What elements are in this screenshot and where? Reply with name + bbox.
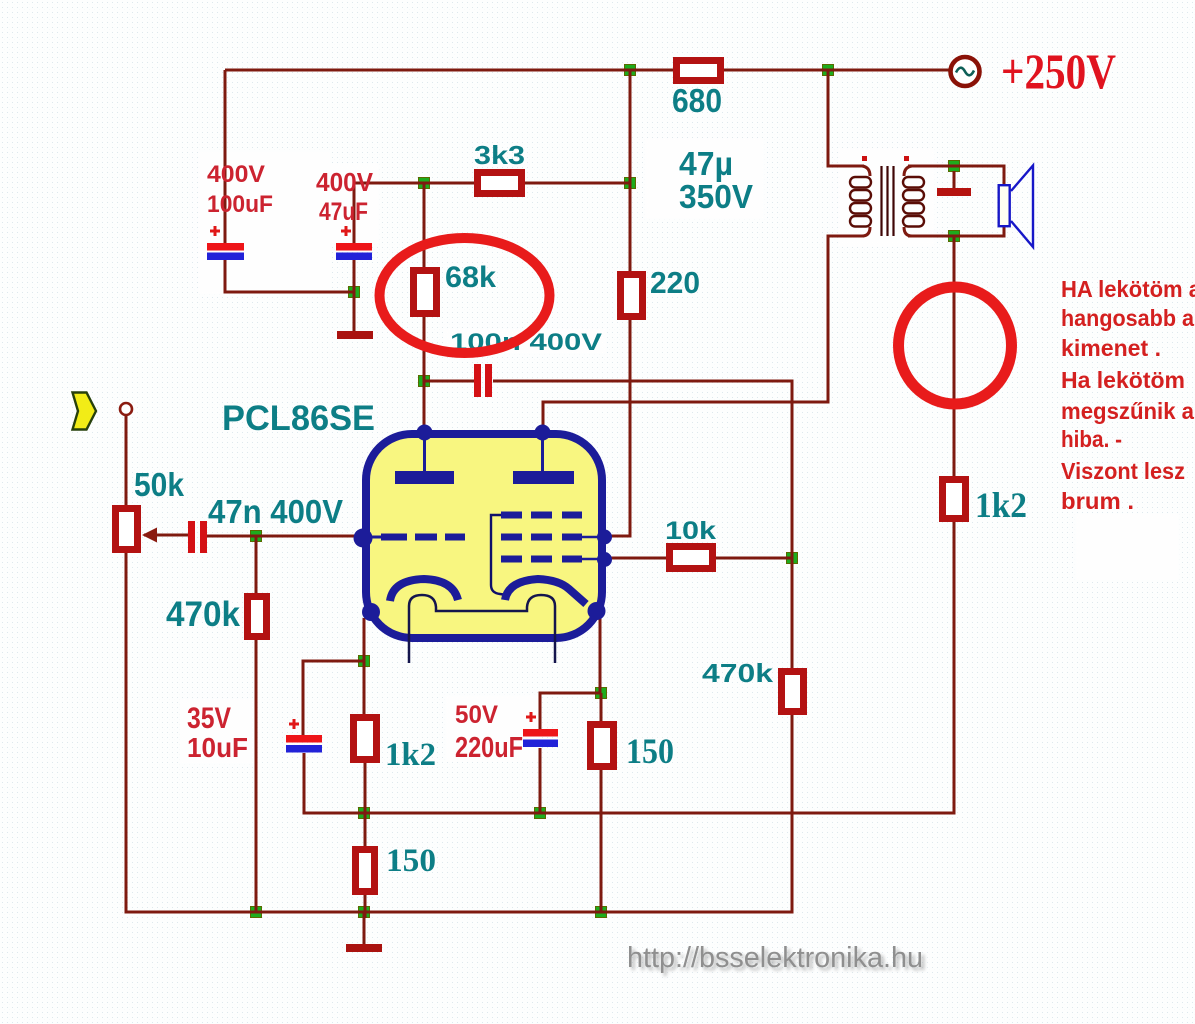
triode grid tie — [370, 536, 381, 539]
svg-text:400V: 400V — [207, 161, 265, 188]
svg-text:3k3: 3k3 — [474, 140, 525, 170]
capacitor 100n film — [474, 364, 492, 397]
potentiometer 50k wiper arrow — [142, 528, 157, 543]
speaker body — [999, 185, 1010, 226]
wire feedback drop to 1k2 — [953, 236, 956, 476]
svg-text:470k: 470k — [166, 595, 240, 634]
transformer primary exit — [862, 227, 870, 236]
capacitor 10uF electrolytic — [286, 735, 322, 753]
wire 3k3 to 220 node — [525, 182, 630, 185]
annotation ellipse around 68k — [380, 238, 550, 353]
wire left drop to 100uF — [224, 70, 227, 244]
power symbol +250V (circle with sine) — [951, 57, 980, 86]
plus mark 10uF — [289, 719, 299, 729]
wire 47uF bottom to ground — [353, 258, 356, 331]
node junction J10 (10k / 100n / 470k) — [787, 553, 798, 564]
wire 470k bottom / ground rail / pot bottom — [126, 553, 792, 912]
resistor 1k2 right — [943, 480, 966, 519]
wire g2 riser top — [629, 70, 632, 271]
wire output terminal stub — [953, 171, 956, 189]
svg-text:47uF: 47uF — [319, 198, 368, 226]
input arrow symbol — [73, 393, 97, 430]
wire primary top from B+ — [828, 70, 864, 166]
svg-text:HA lekötöm a: HA lekötöm a — [1061, 276, 1195, 302]
wire pentode 150 bottom to ground rail — [600, 770, 603, 912]
svg-text:1k2: 1k2 — [975, 485, 1027, 525]
wire input terminal to pot — [125, 415, 128, 505]
wire grid node to 470k grid-leak — [255, 536, 258, 593]
resistor 68k — [414, 271, 437, 314]
pentode g3 to cathode tie — [491, 515, 507, 595]
triode grid dashes — [381, 534, 465, 541]
wire pentode g1 to 10k — [603, 557, 666, 560]
wire cathode node to 10uF — [303, 661, 364, 735]
transformer primary winding — [850, 177, 871, 227]
tube pin node triode cathode — [362, 603, 380, 621]
node junction J3 (3k3 left / 68k top) — [419, 178, 430, 189]
resistor 470k right — [782, 672, 804, 712]
tube pin node pentode anode — [535, 425, 551, 441]
wire wiper to 47n — [144, 534, 188, 537]
svg-text:10k: 10k — [665, 517, 716, 545]
wire 47n to triode grid — [207, 535, 360, 538]
transformer phase dot secondary — [904, 156, 909, 161]
wire 150 to ground rail — [364, 895, 367, 918]
capacitor 47uF electrolytic — [336, 243, 372, 260]
tube pin node pentode g1 — [597, 552, 612, 567]
heater filament — [409, 595, 555, 663]
node junction J2 (top rail / transformer primary) — [823, 65, 834, 76]
wire 100n left — [424, 380, 474, 383]
resistor 680 — [677, 61, 721, 81]
wire 68k top — [423, 183, 426, 267]
pentode anode plate — [513, 471, 574, 484]
wire pentode anode to primary bottom — [543, 236, 864, 431]
svg-text:220uF: 220uF — [455, 732, 523, 764]
node junction J15 (470k bottom / ground rail) — [251, 907, 262, 918]
svg-text:Ha lekötöm: Ha lekötöm — [1061, 367, 1185, 393]
svg-text:47n 400V: 47n 400V — [208, 493, 343, 530]
resistor 220 — [621, 275, 643, 317]
resistor 3k3 — [478, 173, 522, 194]
annotation circle on feedback wire — [899, 287, 1012, 404]
wire cathode node to 220uF — [540, 693, 601, 729]
tube pin node triode grid — [354, 529, 373, 548]
resistor 10k — [670, 547, 713, 569]
resistor 150 pentode cathode — [591, 725, 614, 767]
tube pin node pentode cathode — [588, 602, 606, 620]
wire pentode 150 top — [600, 693, 603, 721]
resistor 470k grid-leak — [248, 597, 267, 637]
resistor 150 bottom — [356, 850, 375, 892]
wire 10k to node — [716, 557, 792, 560]
svg-text:http://bsselektronika.hu: http://bsselektronika.hu — [627, 942, 923, 974]
transformer primary entry — [862, 166, 870, 176]
pentode g1 dashes — [501, 556, 582, 563]
wire 1k2 bottom / bias rail to 10uF — [304, 522, 954, 813]
wire secondary top to speaker — [908, 166, 1004, 185]
ground symbol (bottom rail) — [346, 944, 382, 952]
wire 1k2 to 150 — [364, 763, 367, 846]
pentode g3 dashes — [501, 512, 582, 519]
node junction J9 (grid wire / 470k) — [251, 531, 262, 542]
transformer secondary exit — [904, 227, 916, 236]
svg-text:10uF: 10uF — [187, 732, 248, 763]
transformer secondary entry — [904, 166, 916, 176]
svg-text:35V: 35V — [187, 702, 231, 735]
triode cathode arc — [390, 579, 458, 601]
pentode g2 tie — [582, 536, 599, 539]
tube pin node pentode g2 — [597, 530, 612, 545]
node junction J5 (filter caps common) — [349, 287, 360, 298]
node junction J14 (1k2 bottom / bias rail) — [359, 808, 370, 819]
pentode cathode arc — [505, 579, 586, 604]
node junction J7 (secondary top / speaker) — [949, 161, 960, 172]
svg-text:470k: 470k — [702, 658, 774, 688]
triode anode plate — [395, 471, 454, 484]
node junction J13 (220uF bottom / bias rail) — [535, 808, 546, 819]
node junction J11 (triode cathode / 10uF) — [359, 656, 370, 667]
wire pentode cathode drop — [599, 615, 602, 693]
node junction J16 (150 bottom / ground rail) — [359, 907, 370, 918]
transformer secondary winding — [903, 177, 924, 227]
svg-text:megszűnik a: megszűnik a — [1061, 398, 1194, 424]
triode anode stem — [423, 437, 426, 471]
wire 100n right to 10k node — [493, 381, 792, 558]
transformer core — [882, 166, 894, 236]
wire 470k grid-leak to ground rail — [255, 640, 258, 912]
svg-text:hiba. -: hiba. - — [1061, 426, 1122, 452]
ground symbol (47uF) — [337, 331, 373, 339]
wire g2 riser bottom — [603, 320, 630, 536]
wire B+ top rail — [225, 69, 950, 72]
svg-text:+250V: +250V — [1001, 43, 1116, 99]
wire 68k bottom to triode anode — [423, 317, 426, 431]
svg-text:Viszont lesz: Viszont lesz — [1061, 458, 1185, 484]
node junction J1 (top rail / g2 riser) — [625, 65, 636, 76]
svg-text:150: 150 — [626, 731, 674, 771]
tube PCL86 envelope — [366, 434, 602, 638]
svg-text:50k: 50k — [134, 466, 185, 503]
capacitor 47n film — [188, 521, 207, 553]
svg-text:350V: 350V — [679, 178, 753, 215]
svg-text:100uF: 100uF — [207, 191, 273, 218]
capacitor 100uF electrolytic — [207, 243, 244, 260]
wire secondary bottom to speaker — [908, 226, 1004, 236]
svg-text:50V: 50V — [455, 701, 498, 729]
svg-text:47µ: 47µ — [679, 145, 733, 182]
pentode g2 dashes — [501, 534, 582, 541]
node junction J8 (secondary bottom / feedback) — [949, 231, 960, 242]
transformer phase dot primary — [862, 156, 867, 161]
svg-text:220: 220 — [650, 265, 700, 300]
svg-text:68k: 68k — [445, 261, 496, 294]
speaker horn — [1011, 166, 1033, 248]
wire 47uF top to 3k3 rail — [354, 183, 474, 244]
node junction J12 (pentode cathode / 220uF) — [596, 688, 607, 699]
wire node to 470k top — [791, 558, 794, 668]
svg-text:kimenet .: kimenet . — [1061, 335, 1161, 361]
capacitor 220uF electrolytic — [523, 729, 558, 747]
svg-text:brum .: brum . — [1061, 488, 1134, 514]
output terminator bar — [937, 188, 971, 196]
plus mark 100uF — [210, 226, 220, 236]
resistor 1k2 triode cathode — [354, 718, 377, 760]
tube pin node triode anode — [417, 425, 433, 441]
plus mark 220uF — [526, 712, 536, 722]
wire ground stub bottom — [363, 912, 366, 944]
potentiometer 50k body — [116, 509, 138, 550]
svg-text:hangosabb a: hangosabb a — [1061, 305, 1194, 331]
wire triode cathode to 1k2 — [363, 618, 366, 714]
svg-text:PCL86SE: PCL86SE — [222, 399, 375, 438]
pentode anode stem — [541, 437, 544, 471]
wire 100uF bottom to common node — [225, 258, 354, 292]
svg-text:1k2: 1k2 — [385, 737, 436, 773]
plus mark 47uF — [341, 226, 351, 236]
node junction J6 (68k bottom / 100n) — [419, 376, 430, 387]
svg-text:680: 680 — [672, 82, 722, 119]
svg-text:150: 150 — [386, 843, 436, 879]
svg-text:400V: 400V — [316, 167, 374, 197]
input terminal circle — [120, 403, 132, 415]
wire 220uF bottom to bias rail — [539, 748, 542, 813]
pentode g1 tie — [582, 558, 599, 561]
node junction J17 (pentode 150 bottom / ground rail) — [596, 907, 607, 918]
node junction J4 (3k3 right / 220 top) — [625, 178, 636, 189]
